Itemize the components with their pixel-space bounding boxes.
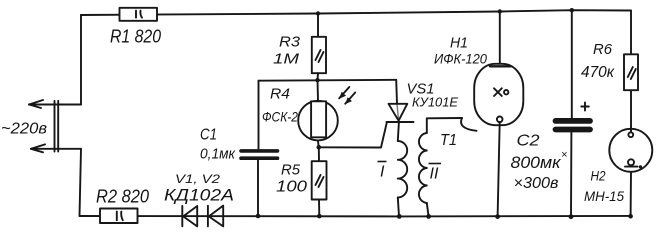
svg-text:R2 820: R2 820 (96, 187, 149, 207)
node H1 bottom (495, 214, 500, 219)
node A junction (315, 78, 319, 82)
capacitor C1 (241, 81, 278, 216)
node C2 top (570, 8, 574, 12)
svg-text:0,1мк: 0,1мк (200, 147, 236, 163)
svg-text:R6: R6 (593, 41, 613, 58)
trigger electrode wire (461, 118, 476, 131)
svg-text:V1, V2: V1, V2 (175, 174, 221, 186)
node C2 bottom (569, 214, 574, 219)
transformer T1 secondary winding (419, 118, 462, 216)
svg-text:II: II (430, 166, 439, 183)
wire mains upper prong (29, 100, 81, 108)
svg-text:КУ101Е: КУ101Е (412, 95, 458, 110)
wire left vertical lower (80, 149, 82, 216)
svg-text:R4: R4 (270, 86, 290, 103)
photoresistor R4 (298, 80, 338, 147)
light arrows at R4 (339, 87, 355, 104)
svg-text:ИФК-120: ИФК-120 (434, 52, 487, 67)
wire top rail (81, 10, 631, 15)
wire gate (319, 123, 387, 148)
svg-text:Т1: Т1 (440, 132, 457, 149)
neon lamp H2 (609, 129, 652, 172)
svg-text:~220в: ~220в (1, 121, 47, 138)
wire node A horizontal (259, 79, 397, 82)
svg-text:100: 100 (276, 179, 307, 196)
capacitor C2 (556, 10, 591, 217)
svg-text:Н1: Н1 (450, 35, 468, 52)
wire mains lower prong (31, 144, 81, 152)
resistor R2 (100, 209, 138, 224)
svg-text:×300в: ×300в (514, 175, 559, 192)
wire bottom rail (80, 215, 632, 218)
resistor R5 (312, 147, 327, 216)
svg-text:R1 820: R1 820 (110, 27, 161, 47)
svg-text:470к: 470к (581, 64, 615, 81)
wire left vertical upper (80, 15, 82, 105)
svg-text:С2: С2 (517, 133, 540, 150)
resistor R3 (312, 14, 326, 81)
svg-text:ФСК-2: ФСК-2 (262, 109, 298, 125)
node R3 top (316, 11, 320, 15)
node R5 bottom (317, 214, 322, 219)
svg-text:Н2: Н2 (591, 168, 606, 184)
resistor R6 (624, 54, 638, 90)
diode V2 (208, 206, 223, 227)
node T1 primary bottom (397, 214, 402, 219)
mains plug double line (55, 101, 59, 152)
svg-text:МН-15: МН-15 (584, 188, 624, 204)
svg-text:R3: R3 (279, 34, 301, 51)
svg-text:R5: R5 (281, 162, 301, 179)
svg-text:КД102А: КД102А (164, 186, 234, 205)
resistor R1 (120, 8, 158, 21)
svg-text:С1: С1 (200, 127, 217, 144)
node H1 top (498, 9, 502, 13)
label winding II (429, 164, 442, 183)
diode V1 (182, 206, 197, 226)
node T1 secondary bottom (426, 214, 431, 219)
plus sign C2 (581, 103, 589, 111)
transformer T1 primary winding (398, 122, 407, 216)
wire right vertical (630, 11, 632, 55)
label winding I (378, 162, 387, 181)
node C1 bottom (256, 214, 261, 219)
svg-text:800мк: 800мк (511, 154, 562, 172)
thyristor VS1 (387, 80, 414, 122)
flash lamp H1 (474, 12, 523, 217)
svg-text:1М: 1М (273, 51, 300, 68)
node B junction (317, 145, 322, 150)
svg-text:I: I (380, 164, 385, 181)
svg-text:×: × (561, 149, 567, 161)
node H2 bottom (628, 214, 633, 219)
